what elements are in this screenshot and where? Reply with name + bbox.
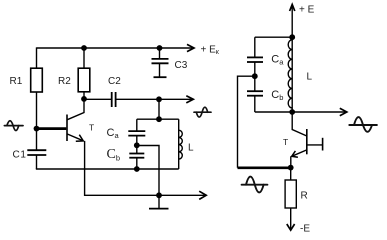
capacitor C1 bbox=[27, 149, 46, 151]
wire Ca top lead bbox=[136, 119, 138, 131]
svg-text:+ E: + E bbox=[299, 5, 315, 16]
wire tank top bar bbox=[137, 118, 179, 120]
node tank top dot (right) bbox=[289, 34, 295, 40]
node tank mid dot (right) bbox=[252, 73, 258, 79]
svg-text:R: R bbox=[301, 191, 308, 202]
wire Cb bottom lead bbox=[136, 158, 138, 169]
svg-text:C1: C1 bbox=[13, 149, 27, 160]
node rail dot at C3 bbox=[157, 45, 163, 51]
svg-text:R2: R2 bbox=[58, 76, 71, 87]
node tank bottom dot bbox=[134, 166, 140, 172]
svg-text:T: T bbox=[89, 123, 94, 133]
resistor R bbox=[285, 180, 296, 208]
resistor R1 bbox=[31, 68, 43, 92]
sine icon right circuit output bbox=[349, 117, 377, 132]
sine icon output (left circuit, inverted) bbox=[194, 107, 211, 117]
wire Ca-Cb mid bbox=[136, 136, 138, 154]
capacitor Cb (left tank) bbox=[129, 153, 144, 155]
wire Ca top lead (right) bbox=[254, 37, 256, 57]
ground symbol main bbox=[158, 195, 160, 208]
capacitor C2 bbox=[111, 92, 113, 107]
transistor T (right) collector lead bbox=[292, 112, 307, 136]
wire Cb bottom lead (right) bbox=[254, 96, 256, 112]
transistor T emitter lead with arrow bbox=[67, 134, 83, 141]
transistor T (left) base bar bbox=[66, 115, 68, 142]
svg-text:R1: R1 bbox=[10, 76, 23, 87]
svg-text:L: L bbox=[188, 143, 194, 154]
wire emitter output arrow bbox=[159, 194, 205, 196]
capacitor Ca (left tank) bbox=[128, 130, 145, 132]
transistor T (right) base bar bbox=[306, 129, 308, 154]
wire tank top bar (right) bbox=[255, 36, 292, 38]
wire thick base lead bbox=[37, 127, 67, 130]
wire Ca-Cb mid (right) bbox=[254, 62, 256, 91]
node emitter/ground junction dot bbox=[156, 192, 162, 198]
arrowhead +E bbox=[290, 4, 295, 11]
wire R1 top lead bbox=[36, 47, 38, 68]
ground symbol C3 bbox=[154, 76, 167, 78]
wire tank bottom bar (right) bbox=[255, 111, 292, 113]
transistor T (right) base lead and terminal bbox=[307, 144, 323, 146]
node tank mid dot bbox=[134, 142, 140, 148]
wire mid tap to emitter line bbox=[137, 146, 159, 196]
svg-text:-E: -E bbox=[300, 224, 310, 235]
resistor R2 bbox=[78, 68, 90, 92]
wire output arrow collector bbox=[159, 98, 192, 100]
arrowhead supply rail +Ek bbox=[187, 44, 194, 51]
wire emitter to node bbox=[290, 156, 292, 167]
node emitter dot (right) bbox=[288, 165, 294, 171]
wire C1 bottom lead bbox=[36, 155, 38, 169]
arrowhead -E bbox=[287, 224, 295, 230]
node collector junction dot bbox=[81, 96, 87, 102]
wire +E arrow bbox=[291, 5, 293, 37]
wire R2 top lead bbox=[83, 48, 85, 68]
arrowhead emitter output bbox=[199, 191, 206, 199]
wire collector to C2 bbox=[84, 98, 111, 100]
svg-text:L: L bbox=[307, 72, 313, 83]
sine icon input (left circuit) bbox=[4, 121, 23, 131]
wire bottom tank bus bbox=[36, 168, 179, 170]
inductor L (left) bbox=[178, 119, 180, 169]
svg-text:C2: C2 bbox=[108, 76, 121, 87]
arrowhead output (right) bbox=[340, 108, 347, 115]
node base junction dot bbox=[34, 126, 40, 132]
wire thick emitter feed bbox=[238, 167, 291, 170]
capacitor Ca (right) bbox=[247, 56, 263, 58]
svg-text:T: T bbox=[283, 137, 288, 147]
wire C2 to output node bbox=[116, 98, 159, 100]
inductor L (right) bbox=[291, 37, 293, 112]
wire R top lead bbox=[290, 168, 292, 180]
wire emitter down and across bbox=[85, 141, 159, 195]
wire output arrow (right) bbox=[292, 111, 345, 113]
transistor T collector lead bbox=[67, 99, 84, 120]
capacitor Cb (right) bbox=[247, 90, 263, 92]
node tank top / output dot bbox=[156, 96, 162, 102]
arrowhead collector output bbox=[186, 96, 193, 103]
wire top supply rail left circuit bbox=[37, 47, 193, 49]
transistor T (right) emitter lead with arrow bbox=[292, 150, 307, 156]
wire tank top vertical bbox=[158, 99, 160, 119]
wire mid tap left and down to emitter bbox=[238, 76, 255, 168]
wire R2 bottom lead bbox=[83, 92, 85, 99]
sine icon right circuit emitter bbox=[242, 177, 268, 193]
node rail dot above R2 bbox=[81, 45, 87, 51]
node tank bottom dot (right) bbox=[289, 109, 295, 115]
node tank bar dot bbox=[156, 116, 162, 122]
svg-text:C3: C3 bbox=[175, 60, 188, 71]
capacitor C3 bbox=[159, 48, 161, 59]
wire R1 bottom to base node and C1 bbox=[36, 92, 38, 150]
wire R bottom to -E arrow bbox=[290, 208, 292, 229]
